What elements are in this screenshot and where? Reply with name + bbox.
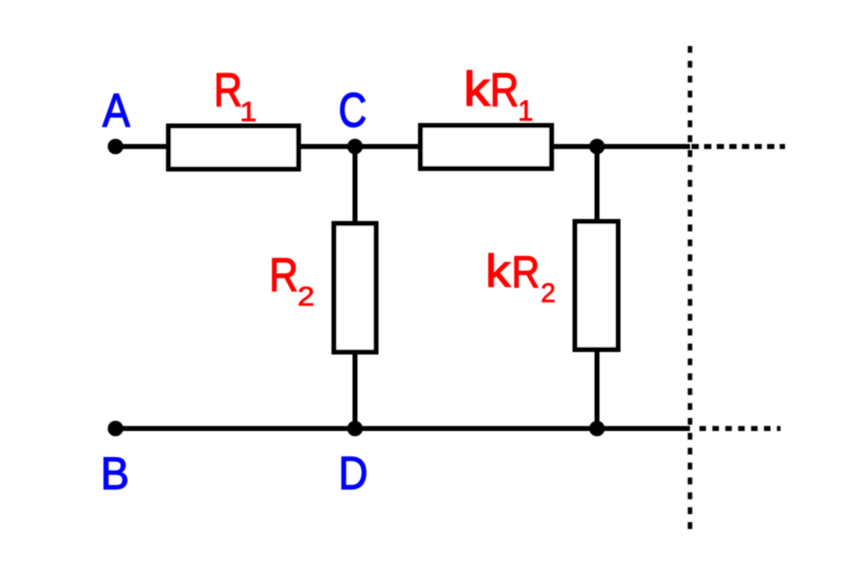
svg-text:2: 2	[541, 278, 556, 308]
svg-text:1: 1	[518, 95, 534, 128]
svg-text:2: 2	[297, 282, 314, 312]
resistor R2	[334, 224, 376, 353]
svg-text:R: R	[269, 249, 298, 302]
svg-text:R: R	[511, 247, 539, 297]
wire top rail A to dashed boundary	[116, 144, 691, 149]
svg-text:1: 1	[240, 96, 257, 127]
resistor R1	[169, 126, 299, 169]
svg-text:R: R	[214, 65, 243, 117]
node C junction dot	[347, 139, 363, 155]
svg-text:D: D	[339, 449, 368, 500]
dotted continuation bottom right	[700, 426, 781, 431]
svg-text:R: R	[490, 64, 519, 117]
wire bottom rail B to dashed boundary	[116, 426, 691, 431]
resistor kR2	[575, 222, 618, 350]
wire C to D vertical	[353, 147, 358, 429]
junction dot bottom right	[589, 421, 605, 437]
dashed section boundary vertical line	[688, 46, 693, 529]
node A terminal dot	[108, 139, 124, 155]
svg-text:A: A	[103, 85, 131, 137]
junction dot top right	[589, 139, 605, 155]
svg-text:k: k	[486, 247, 512, 298]
resistor kR1	[421, 126, 552, 169]
wire right branch vertical	[595, 147, 600, 429]
svg-text:k: k	[464, 61, 491, 116]
node B terminal dot	[108, 421, 124, 437]
svg-text:C: C	[339, 84, 367, 138]
dotted continuation top right	[692, 144, 786, 149]
svg-text:B: B	[100, 449, 129, 499]
node D junction dot	[347, 421, 363, 437]
